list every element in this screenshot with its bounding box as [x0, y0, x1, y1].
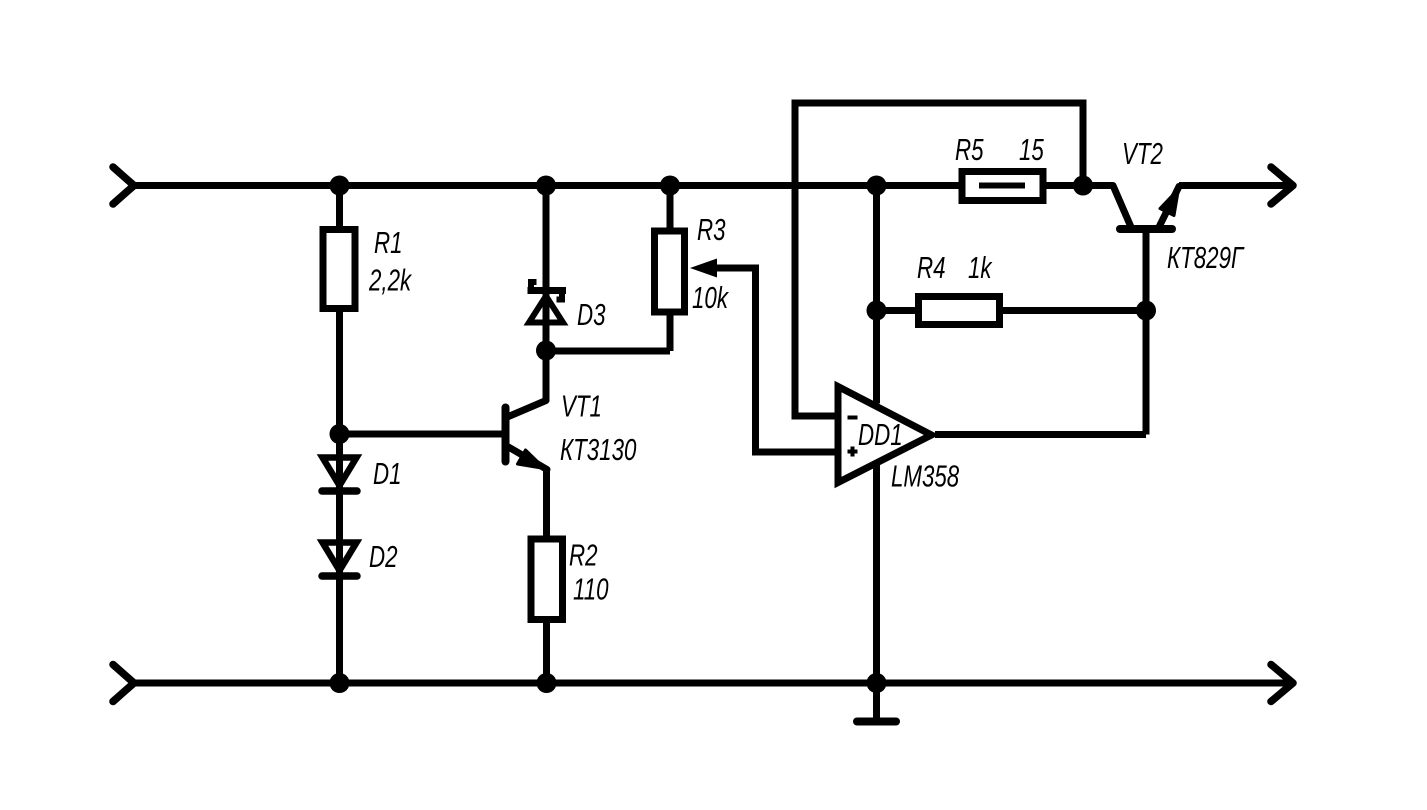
wire R2 to bottom rail — [543, 619, 550, 683]
svg-text:2,2k: 2,2k — [368, 263, 412, 297]
svg-text:R1: R1 — [374, 225, 403, 259]
wire R1 top lead — [336, 186, 343, 227]
zener diode D3 — [528, 282, 567, 323]
resistor R2 — [531, 539, 563, 620]
op-amp minus input sign — [848, 416, 858, 420]
svg-text:R2: R2 — [569, 538, 598, 572]
wire VT2 base column to op-amp output — [1143, 231, 1150, 435]
op-amp U1 DD1 triangle — [838, 387, 932, 483]
wire top rail middle segment — [1044, 182, 1113, 189]
wire R3 wiper to op-amp plus input — [713, 268, 839, 452]
node bottom rail / D2 — [330, 673, 350, 693]
node R4 left / supply column — [867, 301, 887, 321]
svg-text:VT1: VT1 — [561, 389, 602, 423]
node bottom rail / R2 — [537, 673, 557, 693]
wire R4 left lead — [877, 307, 916, 314]
op-amp plus input sign — [848, 447, 858, 457]
svg-text:КТ3130: КТ3130 — [560, 432, 636, 466]
transistor VT1 — [506, 401, 548, 470]
ground — [857, 718, 896, 726]
wire feedback loop to op-amp minus input — [795, 103, 1083, 416]
wire op-amp output — [935, 431, 1146, 438]
svg-text:15: 15 — [1019, 132, 1045, 166]
wire VT1 emitter to R2 — [543, 468, 550, 539]
output terminal arrow top-right — [1271, 167, 1293, 204]
wire VT1 base — [340, 431, 503, 438]
node top rail / supply column — [867, 176, 887, 196]
svg-text:D3: D3 — [577, 297, 606, 331]
diode D2 — [322, 543, 357, 577]
wire supply column upper (top rail to op-amp) — [873, 186, 880, 404]
resistor R4 — [919, 297, 1000, 325]
svg-text:КТ829Г: КТ829Г — [1167, 240, 1245, 274]
svg-text:D2: D2 — [369, 539, 398, 573]
svg-text:R4: R4 — [917, 250, 946, 284]
node top rail / R1 — [330, 176, 350, 196]
svg-text:D1: D1 — [373, 456, 402, 490]
node bottom rail / ground — [867, 673, 887, 693]
wire top rail left segment — [134, 182, 959, 189]
resistor R5 power-rating bar — [979, 183, 1025, 189]
node R1 / D1 / VT1 base — [330, 424, 350, 444]
svg-text:10k: 10k — [692, 280, 729, 314]
wire R1 bottom lead through D1 D2 to bottom rail — [336, 312, 343, 683]
wire top rail right segment — [1179, 182, 1293, 189]
node R4 right / VT2 base — [1136, 301, 1156, 321]
node top rail / R3 — [660, 176, 680, 196]
wire R3 top lead — [667, 186, 674, 228]
wire D3 column (top rail to VT1 collector) — [543, 186, 550, 401]
wire R3 bottom lead — [667, 313, 674, 352]
node top rail / feedback — [1073, 176, 1093, 196]
svg-text:110: 110 — [573, 572, 609, 606]
diode D1 — [322, 458, 357, 492]
output terminal arrow bottom-right — [1271, 665, 1293, 702]
svg-text:1k: 1k — [968, 250, 993, 284]
resistor R1 — [323, 230, 355, 309]
input terminal arrow top-left — [113, 167, 134, 204]
svg-text:R5: R5 — [955, 132, 984, 166]
svg-text:R3: R3 — [697, 212, 726, 246]
wire bottom rail — [134, 680, 1293, 687]
wire R4 right lead — [1003, 307, 1146, 314]
resistor R5 — [962, 172, 1043, 201]
svg-text:DD1: DD1 — [858, 417, 903, 451]
svg-text:VT2: VT2 — [1122, 136, 1163, 170]
potentiometer R3 wiper arrow — [690, 259, 717, 278]
wire node D3 to R3 bottom — [546, 348, 670, 355]
wire supply column lower (op-amp to bottom rail) — [873, 465, 880, 683]
wire ground stub — [873, 683, 880, 719]
svg-text:LM358: LM358 — [891, 459, 959, 493]
node top rail / D3 — [536, 176, 556, 196]
input terminal arrow bottom-left — [113, 665, 134, 702]
potentiometer R3 body — [655, 231, 685, 312]
node D3 / R3 bottom — [536, 341, 556, 361]
transistor VT2 — [1113, 186, 1179, 230]
